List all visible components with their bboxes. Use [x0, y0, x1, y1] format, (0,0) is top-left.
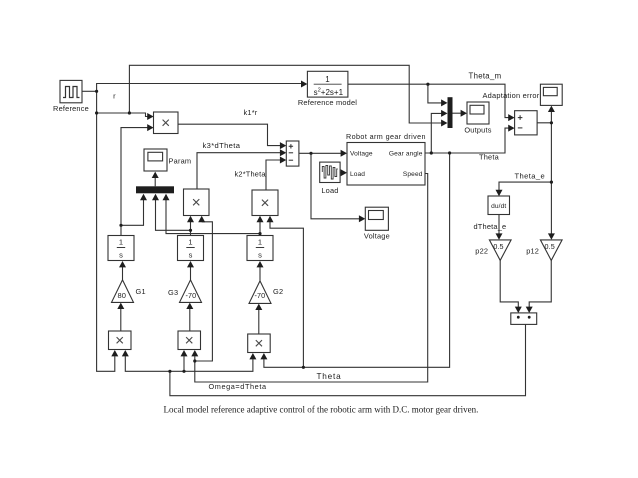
svg-text:p12: p12: [526, 247, 539, 256]
svg-text:s: s: [119, 251, 123, 260]
svg-text:Theta: Theta: [317, 372, 342, 381]
svg-text:dTheta_e: dTheta_e: [474, 222, 507, 231]
svg-text:k2*Theta: k2*Theta: [235, 170, 267, 179]
svg-text:Load: Load: [350, 171, 365, 178]
svg-text:r: r: [113, 92, 116, 101]
svg-text:du/dt: du/dt: [491, 203, 506, 210]
svg-text:1: 1: [325, 75, 330, 84]
svg-text:Theta_m: Theta_m: [469, 72, 502, 81]
svg-text:G1: G1: [136, 287, 146, 296]
svg-text:s: s: [258, 251, 262, 260]
svg-text:Param: Param: [169, 156, 192, 165]
svg-text:Outputs: Outputs: [464, 125, 491, 134]
svg-text:G2: G2: [273, 287, 283, 296]
svg-text:Local model reference adaptive: Local model reference adaptive control o…: [164, 405, 479, 415]
svg-text:Speed: Speed: [403, 171, 423, 178]
svg-text:1: 1: [188, 238, 192, 247]
svg-text:Gear angle: Gear angle: [389, 151, 423, 158]
svg-text:p22: p22: [475, 247, 488, 256]
svg-text:-70: -70: [186, 291, 197, 300]
svg-text:Adaptation error: Adaptation error: [483, 91, 540, 100]
svg-text:1: 1: [258, 238, 262, 247]
svg-text:0.5: 0.5: [493, 242, 503, 251]
svg-text:-70: -70: [255, 291, 266, 300]
svg-text:80: 80: [118, 291, 127, 300]
svg-text:Robot arm gear driven: Robot arm gear driven: [346, 132, 426, 141]
svg-text:Voltage: Voltage: [350, 151, 373, 158]
svg-text:+2s+1: +2s+1: [321, 88, 344, 97]
svg-text:0.5: 0.5: [545, 242, 555, 251]
svg-text:G3: G3: [168, 288, 178, 297]
svg-text:s: s: [189, 251, 193, 260]
svg-text:Omega=dTheta: Omega=dTheta: [209, 382, 267, 391]
svg-text:k1*r: k1*r: [244, 108, 258, 117]
svg-text:Theta: Theta: [479, 153, 500, 162]
svg-text:Load: Load: [321, 186, 338, 195]
svg-text:k3*dTheta: k3*dTheta: [203, 141, 241, 150]
svg-text:Theta_e: Theta_e: [515, 171, 546, 180]
svg-text:Reference model: Reference model: [298, 98, 357, 107]
svg-text:Reference: Reference: [53, 104, 89, 113]
svg-text:1: 1: [119, 238, 123, 247]
svg-text:Voltage: Voltage: [364, 231, 390, 240]
